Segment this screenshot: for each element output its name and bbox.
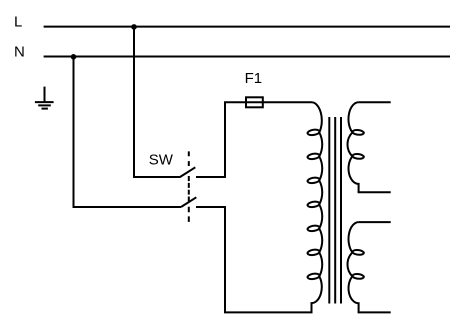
svg-text:F1: F1 <box>245 70 263 87</box>
ground <box>35 87 54 109</box>
switch SW pole 1 blade <box>180 167 195 177</box>
power line L <box>44 26 450 28</box>
transformer T1 primary winding <box>308 102 323 312</box>
wire L line to switch SW pole 1 <box>134 26 181 177</box>
junction on N <box>71 54 77 60</box>
svg-text:SW: SW <box>149 151 174 168</box>
transformer T1 core <box>329 117 341 304</box>
power line N <box>44 56 450 58</box>
svg-text:N: N <box>14 44 25 61</box>
wire through fuse F1 to transformer primary <box>224 101 312 103</box>
switch SW pole 2 blade <box>181 197 196 207</box>
svg-text:L: L <box>14 14 22 31</box>
transformer T1 secondary winding 2 <box>347 222 363 312</box>
fuse F1 <box>246 97 263 107</box>
wire secondary winding 2 top lead <box>359 221 391 223</box>
switch SW linkage (dashed) <box>188 151 190 222</box>
wire transformer primary bottom to switch SW pole 2 <box>196 207 313 312</box>
junction on L <box>131 24 137 30</box>
transformer T1 secondary winding 1 <box>347 102 363 192</box>
wire secondary winding 1 top lead <box>359 101 391 103</box>
wire switch SW pole 1 to fuse F1 <box>196 102 225 177</box>
wire secondary winding 2 bottom lead <box>358 311 391 313</box>
wire secondary winding 1 bottom lead <box>358 191 391 193</box>
wire N line to switch SW pole 2 <box>74 56 182 208</box>
